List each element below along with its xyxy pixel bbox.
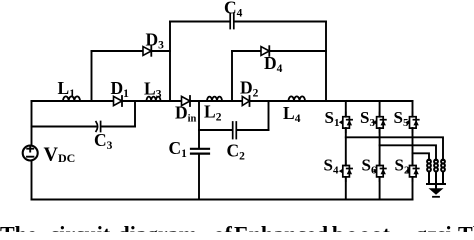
ground (427, 184, 445, 188)
svg-text:S1: S1 (325, 108, 340, 129)
diode D3 (143, 47, 151, 56)
wire C4 left leg (169, 22, 171, 102)
load inductor phase C (429, 160, 431, 185)
load inductor phase B (436, 160, 438, 185)
wire right vertical (325, 22, 327, 102)
svg-text:S6: S6 (362, 156, 377, 177)
switch S6 (373, 161, 386, 181)
wire phase B line (380, 145, 436, 160)
svg-text:S4: S4 (324, 156, 339, 177)
svg-text:S5: S5 (394, 108, 409, 129)
wire bottom rail (32, 199, 413, 201)
svg-text:C3: C3 (94, 130, 113, 152)
wire D4 left leg (231, 51, 233, 101)
wire C1 bottom leg (198, 155, 200, 200)
wire leg phase B (379, 101, 381, 200)
switch S4 (339, 161, 352, 181)
svg-text:L2: L2 (204, 102, 222, 124)
wire phase A line (346, 137, 443, 160)
wire C1 top leg (198, 101, 200, 148)
wire phase C line (413, 153, 430, 160)
capacitor C2 (233, 122, 237, 139)
svg-text:D4: D4 (264, 53, 283, 75)
wire D4 branch (232, 50, 326, 52)
switch S3 (373, 112, 386, 132)
wire C2 branch (199, 129, 269, 131)
wire C3 branch (32, 126, 136, 128)
wire C4 branch top (170, 21, 326, 23)
svg-text:C2: C2 (227, 141, 246, 163)
svg-text:Din: Din (175, 103, 197, 125)
svg-text:C1: C1 (169, 138, 188, 160)
source V_DC (23, 146, 38, 161)
svg-text:D3: D3 (146, 30, 165, 52)
diode D1 (114, 96, 123, 105)
switch S5 (406, 112, 419, 132)
wire C3 right leg (134, 101, 136, 127)
svg-text:ThecircuitdiagramofEnhancedboo: ThecircuitdiagramofEnhancedboostqzsi.The (0, 222, 474, 233)
wire C2 right leg (268, 101, 270, 130)
wire left vertical (source branch) (31, 101, 33, 200)
capacitor C4 (230, 14, 234, 29)
svg-text:D2: D2 (240, 78, 259, 100)
svg-text:VDC: VDC (44, 144, 76, 166)
wire top rail (32, 100, 413, 102)
svg-text:S3: S3 (360, 108, 375, 129)
wire D3 left leg (91, 51, 93, 101)
inductor L1 (63, 96, 80, 101)
svg-text:L4: L4 (283, 103, 301, 125)
svg-text:S2: S2 (395, 156, 410, 177)
wire leg phase C (412, 101, 414, 200)
capacitor C3 (96, 122, 101, 132)
inductor L2 (207, 97, 222, 101)
svg-text:C4: C4 (224, 0, 243, 20)
inductor L3 (147, 97, 161, 101)
inductor L4 (289, 96, 306, 101)
diode D2 (242, 96, 249, 105)
svg-text:D1: D1 (111, 78, 130, 100)
wire leg phase A (345, 101, 347, 200)
diode Din (182, 96, 191, 105)
wire D3 branch (92, 50, 171, 52)
svg-text:L1: L1 (58, 78, 76, 100)
load inductor phase A (443, 160, 445, 185)
switch S1 (339, 112, 352, 132)
switch S2 (406, 161, 419, 181)
svg-text:L3: L3 (144, 79, 162, 101)
diode D4 (261, 47, 269, 56)
capacitor C1 (191, 149, 209, 154)
